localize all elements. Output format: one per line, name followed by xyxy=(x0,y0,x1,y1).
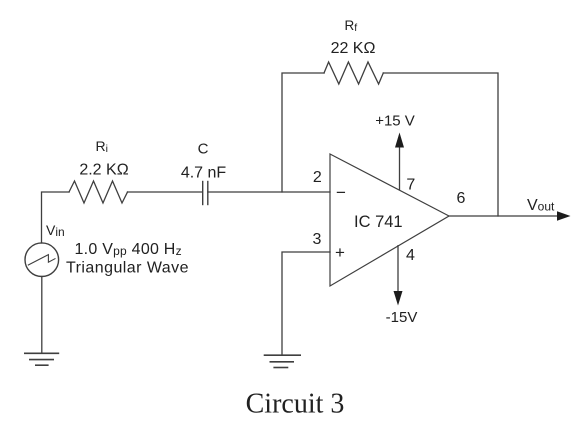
source Vin circle xyxy=(25,243,59,277)
svg-text:Circuit 3: Circuit 3 xyxy=(246,389,345,420)
svg-text:Triangular Wave: Triangular Wave xyxy=(66,260,189,277)
svg-text:Vin: Vin xyxy=(46,222,65,239)
resistor Rf xyxy=(324,62,383,84)
svg-text:Ri: Ri xyxy=(96,138,108,155)
wire Ri to C xyxy=(128,191,203,193)
svg-text:1.0 Vpp 400 Hz: 1.0 Vpp 400 Hz xyxy=(75,241,182,258)
wire -15V supply from pin 4 xyxy=(397,246,399,293)
wire feedback right xyxy=(383,73,498,216)
svg-text:-15V: -15V xyxy=(386,309,418,326)
arrowhead Vout xyxy=(557,211,571,221)
triangular wave symbol xyxy=(28,255,55,265)
resistor Ri xyxy=(69,181,128,203)
wire C to op-amp inverting input (pin 2) xyxy=(208,191,330,193)
svg-text:C: C xyxy=(198,141,209,158)
svg-text:6: 6 xyxy=(457,190,466,207)
svg-text:2: 2 xyxy=(313,169,322,186)
svg-text:+: + xyxy=(335,243,345,262)
svg-text:+15 V: +15 V xyxy=(375,112,415,129)
arrowhead -15V xyxy=(394,291,403,306)
arrowhead +15V xyxy=(395,133,404,148)
wire output xyxy=(449,215,558,217)
svg-text:Vout: Vout xyxy=(527,197,555,214)
svg-text:−: − xyxy=(336,183,346,202)
svg-text:4.7 nF: 4.7 nF xyxy=(181,164,227,181)
wire +15V supply to pin 7 xyxy=(399,146,401,190)
svg-text:IC 741: IC 741 xyxy=(354,213,403,231)
ground under pin 3 xyxy=(265,355,301,367)
svg-text:3: 3 xyxy=(313,231,322,248)
capacitor C xyxy=(203,182,208,205)
svg-text:7: 7 xyxy=(406,177,415,194)
wire feedback left vertical xyxy=(282,73,324,192)
svg-text:2.2 KΩ: 2.2 KΩ xyxy=(79,161,128,178)
svg-text:4: 4 xyxy=(406,247,415,264)
ground under Vin xyxy=(25,353,59,365)
svg-text:22 KΩ: 22 KΩ xyxy=(331,40,376,57)
svg-text:Rf: Rf xyxy=(345,18,358,34)
op-amp U1 triangle xyxy=(330,154,449,286)
wire input left corner to Ri xyxy=(42,192,70,243)
wire pin 3 input xyxy=(282,252,330,354)
wire Vin to ground xyxy=(41,277,43,354)
